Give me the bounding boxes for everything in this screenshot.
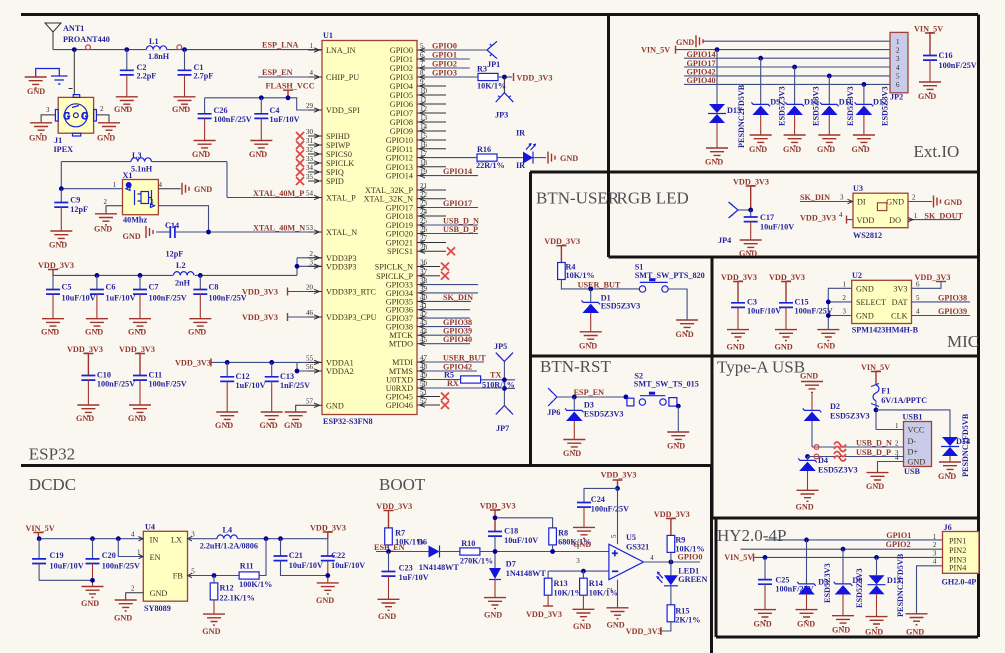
- svg-text:GPIO10: GPIO10: [386, 136, 413, 145]
- svg-text:34: 34: [306, 164, 314, 172]
- power label VDD_3V3 VDDA: [175, 358, 322, 371]
- power label VDD_3V3 pin20: [242, 288, 322, 297]
- svg-text:DO: DO: [889, 216, 901, 225]
- ground under D1: [579, 332, 602, 351]
- ground port X1 pin4: [182, 183, 212, 195]
- svg-text:12pF: 12pF: [70, 205, 88, 214]
- svg-text:3V3: 3V3: [893, 284, 907, 293]
- node D12: [862, 82, 867, 87]
- svg-text:GND: GND: [797, 620, 815, 629]
- svg-text:C13: C13: [280, 372, 294, 381]
- ground under C17: [739, 240, 762, 258]
- resistor R10: [460, 539, 581, 566]
- svg-text:IPEX: IPEX: [54, 145, 74, 154]
- svg-text:GND: GND: [484, 611, 502, 620]
- svg-text:LNA_IN: LNA_IN: [326, 46, 356, 55]
- diode D12: [855, 84, 890, 135]
- svg-text:5: 5: [896, 73, 900, 81]
- capacitor C22: [321, 539, 366, 583]
- svg-text:RX: RX: [447, 379, 459, 388]
- svg-text:GPIO2: GPIO2: [886, 540, 911, 549]
- svg-text:R12: R12: [220, 584, 234, 593]
- svg-text:J6: J6: [944, 523, 952, 532]
- svg-text:31: 31: [306, 137, 314, 145]
- svg-text:ESD5Z3V3: ESD5Z3V3: [818, 466, 858, 475]
- power label VDD_3V3 R3: [514, 73, 553, 83]
- svg-text:GND: GND: [918, 92, 936, 101]
- svg-text:GND: GND: [856, 284, 874, 293]
- ground under C4: [249, 141, 272, 160]
- svg-text:GND: GND: [754, 620, 772, 629]
- svg-text:MTDI: MTDI: [392, 358, 413, 367]
- power label VDD_3V3 R13: [526, 606, 562, 619]
- capacitor C20: [86, 539, 140, 587]
- svg-text:35: 35: [306, 173, 314, 181]
- node TX: [502, 377, 507, 382]
- svg-text:9: 9: [420, 78, 424, 86]
- ground under D12: [852, 135, 875, 154]
- svg-text:C18: C18: [504, 527, 518, 536]
- power flag VIN_5V DCDC: [26, 524, 55, 539]
- svg-text:GND: GND: [866, 482, 884, 491]
- svg-text:USER_BUT: USER_BUT: [578, 280, 621, 289]
- ground top D2: [800, 372, 823, 411]
- svg-text:2: 2: [933, 541, 937, 549]
- svg-text:100nF/25V: 100nF/25V: [591, 505, 629, 514]
- svg-text:GND: GND: [114, 105, 132, 114]
- svg-text:1: 1: [896, 38, 900, 46]
- svg-text:6V/1A/PPTC: 6V/1A/PPTC: [881, 396, 927, 405]
- capacitor C4: [254, 98, 299, 141]
- svg-text:GND: GND: [85, 328, 103, 337]
- svg-text:28: 28: [420, 243, 428, 251]
- svg-text:R16: R16: [477, 145, 491, 154]
- IC U4 SY8089: [131, 523, 192, 614]
- capacitor C15: [779, 298, 833, 330]
- node C6: [95, 273, 100, 278]
- svg-text:GPIO5: GPIO5: [390, 91, 413, 100]
- svg-text:C14: C14: [165, 221, 179, 230]
- ground under C20: [81, 587, 104, 609]
- node R12: [212, 573, 217, 578]
- svg-text:DI: DI: [857, 198, 866, 207]
- svg-text:2: 2: [104, 198, 108, 206]
- svg-text:USER_BUT: USER_BUT: [443, 354, 486, 363]
- svg-text:GND: GND: [817, 342, 835, 351]
- svg-text:C20: C20: [102, 551, 116, 560]
- svg-text:100nF/25V: 100nF/25V: [149, 294, 187, 303]
- node VDDA2: [295, 369, 300, 374]
- jumper JP6: [547, 388, 627, 417]
- ground U2: [817, 330, 839, 351]
- svg-text:MTDO: MTDO: [389, 340, 413, 349]
- svg-text:1uF/10V: 1uF/10V: [270, 115, 300, 124]
- svg-text:F1: F1: [881, 387, 890, 396]
- inductor L1: [146, 37, 170, 61]
- node RX: [502, 386, 507, 391]
- svg-text:42: 42: [420, 310, 428, 318]
- svg-text:2: 2: [100, 105, 104, 113]
- svg-text:GND: GND: [817, 145, 835, 154]
- wire IPEX drop: [69, 50, 75, 96]
- capacitor C2: [120, 50, 156, 97]
- svg-text:GPIO14: GPIO14: [386, 172, 413, 181]
- svg-text:D2: D2: [830, 402, 840, 411]
- svg-text:1nF/25V: 1nF/25V: [280, 381, 310, 390]
- svg-text:R3: R3: [477, 65, 487, 74]
- jumper JP5: [494, 342, 513, 406]
- wire ESP_EN: [258, 68, 322, 77]
- svg-text:CHIP_PU: CHIP_PU: [326, 73, 359, 82]
- svg-text:2: 2: [896, 46, 900, 54]
- svg-text:2: 2: [310, 250, 314, 258]
- capacitor C11: [128, 371, 187, 424]
- wire PIN4 HY: [917, 566, 943, 614]
- ground S2: [667, 432, 689, 451]
- svg-text:C6: C6: [106, 283, 116, 292]
- svg-text:4: 4: [310, 69, 314, 77]
- svg-text:SPIHD: SPIHD: [326, 132, 350, 141]
- svg-text:C15: C15: [795, 298, 809, 307]
- node C18: [493, 515, 498, 520]
- svg-text:1N4148WT: 1N4148WT: [419, 563, 460, 572]
- svg-text:10K/1%: 10K/1%: [675, 545, 704, 554]
- ground under C26: [192, 141, 216, 160]
- capacitor C6: [85, 275, 136, 336]
- svg-text:GND: GND: [188, 328, 206, 337]
- capacitor C12: [215, 362, 266, 430]
- svg-text:12pF: 12pF: [166, 250, 184, 259]
- node C22 bottom: [325, 573, 330, 578]
- svg-text:JP5: JP5: [494, 342, 507, 351]
- svg-text:VDD: VDD: [857, 216, 875, 225]
- svg-text:30: 30: [306, 128, 314, 136]
- node C20: [90, 536, 95, 541]
- svg-text:GPIO40: GPIO40: [443, 335, 472, 344]
- svg-text:GPIO6: GPIO6: [390, 100, 413, 109]
- power label VIN_5V HY: [724, 553, 942, 562]
- no-ERC marker: [86, 45, 91, 50]
- svg-text:VIN_5V: VIN_5V: [724, 553, 753, 562]
- svg-text:SPIWP: SPIWP: [326, 141, 351, 150]
- svg-text:GPIO39: GPIO39: [938, 307, 967, 316]
- node U2 pin3: [826, 313, 831, 318]
- op-amp U5 GS321: [576, 488, 649, 607]
- svg-text:D6: D6: [417, 538, 427, 547]
- svg-text:G: G: [64, 111, 71, 121]
- node F1 out: [874, 408, 879, 413]
- svg-text:12: 12: [420, 105, 428, 113]
- svg-text:49: 49: [420, 372, 428, 380]
- ground op-amp: [607, 608, 629, 630]
- capacitor C23: [382, 552, 429, 600]
- svg-text:R10: R10: [461, 539, 475, 548]
- svg-text:1: 1: [576, 543, 580, 551]
- svg-text:4: 4: [839, 211, 843, 219]
- svg-text:GPIO4: GPIO4: [390, 82, 413, 91]
- capacitor C26: [198, 98, 252, 141]
- svg-text:4: 4: [933, 558, 937, 566]
- power label VDD_3V3 pin46: [242, 313, 322, 322]
- svg-text:C26: C26: [214, 106, 228, 115]
- ground under D9: [749, 135, 772, 154]
- svg-text:SPID: SPID: [326, 177, 344, 186]
- node C2 junction: [124, 47, 129, 52]
- wire USB_D_N: [812, 439, 904, 452]
- svg-text:5: 5: [916, 294, 920, 302]
- svg-text:14: 14: [420, 123, 428, 131]
- wire GPIO38 U2: [912, 293, 971, 302]
- svg-text:GND: GND: [27, 87, 45, 96]
- svg-text:GND: GND: [123, 232, 141, 241]
- svg-text:C19: C19: [50, 551, 64, 560]
- svg-text:21: 21: [420, 182, 428, 190]
- wire minus input: [548, 570, 609, 572]
- capacitor C14 horizontal: [123, 221, 207, 259]
- power label VDD_3V3 R15: [626, 627, 662, 636]
- node EN branch: [116, 536, 121, 541]
- ground U4: [114, 600, 137, 623]
- wire VIN rail: [38, 538, 143, 540]
- jumper JP7: [496, 406, 513, 434]
- svg-text:GND: GND: [676, 38, 694, 47]
- wire XTAL_40M_N: [209, 224, 323, 233]
- jumper JP4: [718, 202, 751, 245]
- svg-text:U1: U1: [323, 31, 333, 40]
- svg-text:VDD_3V3: VDD_3V3: [654, 510, 690, 519]
- svg-text:VDD_3V3: VDD_3V3: [721, 273, 757, 282]
- node C8: [198, 273, 203, 278]
- svg-text:+: +: [612, 549, 618, 560]
- svg-text:51: 51: [420, 389, 428, 397]
- svg-text:22: 22: [420, 191, 428, 199]
- svg-text:1: 1: [310, 42, 314, 50]
- diode D6 1N4148WT: [417, 538, 460, 573]
- wire FB net: [188, 568, 240, 576]
- svg-text:LX: LX: [171, 536, 182, 545]
- svg-text:C11: C11: [149, 371, 163, 380]
- power label VDD_3V3 U3: [800, 211, 853, 224]
- svg-text:ESP_EN: ESP_EN: [574, 388, 605, 397]
- svg-text:100K/1%: 100K/1%: [239, 580, 272, 589]
- svg-text:PROANT440: PROANT440: [63, 35, 110, 44]
- inductor L2: [173, 261, 195, 288]
- resistor R7: [385, 528, 425, 552]
- svg-text:1uF/10V: 1uF/10V: [236, 381, 266, 390]
- wire X1 pin4 to gnd: [158, 188, 180, 190]
- svg-text:GND: GND: [215, 421, 233, 430]
- svg-text:C21: C21: [289, 551, 303, 560]
- resistor R9: [667, 535, 704, 562]
- svg-text:18: 18: [420, 159, 428, 167]
- svg-text:C17: C17: [760, 213, 774, 222]
- wire LX: [188, 531, 218, 539]
- svg-text:ESP_EN: ESP_EN: [262, 68, 293, 77]
- svg-text:TX: TX: [490, 371, 501, 380]
- svg-text:1: 1: [933, 533, 937, 541]
- wire ESP_LNA main: [53, 41, 322, 50]
- svg-text:D+: D+: [908, 448, 919, 457]
- svg-text:GPIO17: GPIO17: [443, 199, 472, 208]
- wire GND pin57: [296, 405, 308, 412]
- svg-text:41: 41: [420, 302, 428, 310]
- ground under R12: [202, 614, 225, 636]
- svg-text:JP3: JP3: [495, 111, 508, 120]
- svg-text:38: 38: [420, 277, 428, 285]
- bracket ground pair top-left: [25, 69, 68, 97]
- diode D8 ESD5Z3V3: [834, 549, 864, 616]
- svg-text:GPIO46: GPIO46: [386, 401, 413, 410]
- svg-text:10K/1%: 10K/1%: [477, 82, 506, 91]
- wire xtal left: [61, 162, 122, 189]
- svg-text:GREEN: GREEN: [678, 575, 707, 584]
- ground under D8: [832, 616, 854, 635]
- svg-text:SPM1423HM4H-B: SPM1423HM4H-B: [852, 326, 919, 335]
- svg-text:23: 23: [420, 200, 428, 208]
- svg-text:JP2: JP2: [890, 92, 903, 101]
- svg-text:GND: GND: [94, 225, 112, 234]
- capacitor C1: [178, 50, 214, 97]
- svg-text:D4: D4: [818, 456, 828, 465]
- LED IR: [516, 129, 546, 171]
- svg-text:32: 32: [306, 146, 314, 154]
- svg-text:6: 6: [896, 81, 900, 89]
- svg-text:C24: C24: [591, 495, 605, 504]
- svg-text:GPIO7: GPIO7: [390, 109, 413, 118]
- U1 left pins: [296, 42, 377, 410]
- ground under D5: [796, 610, 818, 629]
- svg-text:2.2uH/1.2A/0806: 2.2uH/1.2A/0806: [200, 542, 258, 551]
- svg-text:SMT_SW_TS_015: SMT_SW_TS_015: [634, 380, 699, 389]
- diode D14 TVS: [941, 413, 970, 477]
- ground HY pin4: [906, 614, 928, 637]
- svg-text:R13: R13: [554, 579, 568, 588]
- jumper JP1: [487, 41, 500, 69]
- capacitor C24: [577, 488, 629, 527]
- diode D2 ESD5Z3V3: [803, 402, 870, 447]
- resistor R13: [544, 571, 582, 606]
- svg-text:GND: GND: [906, 628, 924, 637]
- svg-text:VDD_3V3: VDD_3V3: [526, 610, 562, 619]
- svg-text:XTAL_32K_P: XTAL_32K_P: [365, 186, 413, 195]
- power flag VDD_3V3 C15: [769, 273, 805, 303]
- node output: [669, 560, 674, 565]
- svg-text:GND: GND: [378, 612, 396, 621]
- node D15: [874, 555, 879, 560]
- svg-text:GND: GND: [41, 328, 59, 337]
- svg-text:4: 4: [916, 308, 920, 316]
- power label VIN_5V ExtIO: [641, 46, 890, 55]
- svg-text:GPIO3: GPIO3: [432, 69, 457, 78]
- wire GPIO2 HY: [741, 540, 943, 549]
- ground under J1 pin2: [97, 123, 120, 143]
- node D9: [758, 56, 763, 61]
- svg-text:GND: GND: [326, 401, 344, 410]
- svg-text:U2: U2: [852, 271, 862, 280]
- svg-text:8: 8: [420, 69, 424, 77]
- svg-text:2K/1%: 2K/1%: [675, 616, 700, 625]
- svg-text:C12: C12: [236, 372, 250, 381]
- svg-text:SK_DIN: SK_DIN: [800, 193, 830, 202]
- ground S1: [676, 320, 699, 339]
- svg-text:GND: GND: [800, 372, 818, 381]
- svg-text:GH2.0-4P: GH2.0-4P: [942, 578, 977, 587]
- svg-text:C3: C3: [747, 298, 757, 307]
- svg-text:Ext.IO: Ext.IO: [914, 142, 960, 161]
- diode D11: [820, 76, 855, 135]
- svg-text:Type-A USB: Type-A USB: [717, 358, 805, 377]
- svg-text:4: 4: [896, 64, 900, 72]
- svg-text:GND: GND: [563, 449, 581, 458]
- svg-text:USB: USB: [904, 467, 920, 476]
- ground under D15: [865, 617, 888, 637]
- node U2 pin2: [826, 300, 831, 305]
- svg-text:L1: L1: [149, 37, 159, 46]
- svg-text:L2: L2: [176, 261, 186, 270]
- svg-text:GND: GND: [908, 458, 926, 467]
- power flag VDD_3V3 R4: [544, 237, 580, 263]
- ground under D4: [796, 490, 819, 511]
- svg-text:GND: GND: [739, 249, 757, 258]
- svg-text:2: 2: [895, 440, 899, 448]
- svg-text:CLK: CLK: [891, 311, 907, 320]
- svg-text:U4: U4: [145, 523, 155, 532]
- ground under R14: [572, 609, 594, 631]
- svg-text:PIN2: PIN2: [949, 546, 966, 555]
- svg-text:SPICLK: SPICLK: [326, 159, 354, 168]
- svg-text:GND: GND: [150, 589, 168, 598]
- svg-text:1: 1: [914, 212, 918, 220]
- wire SK_DIN U3: [800, 193, 853, 204]
- svg-text:ESD5Z3V3: ESD5Z3V3: [812, 86, 821, 126]
- ground port ExtIO pin1: [676, 35, 890, 47]
- power label VDD_3V3 U2: [912, 273, 951, 288]
- wire VDD_SPI net: [205, 98, 322, 110]
- svg-text:1.8nH: 1.8nH: [148, 52, 170, 61]
- svg-text:VIN_5V: VIN_5V: [914, 25, 943, 34]
- svg-text:GPIO38: GPIO38: [938, 293, 967, 302]
- svg-text:GND: GND: [202, 627, 220, 636]
- svg-text:D7: D7: [506, 560, 516, 569]
- net label SK_DOUT: [908, 211, 964, 222]
- power flag VDD_3V3 R7: [376, 502, 412, 528]
- node C24: [615, 486, 620, 491]
- svg-text:100nF/25V: 100nF/25V: [102, 562, 140, 571]
- ground under C9: [49, 231, 72, 250]
- node R11 top: [264, 536, 269, 541]
- svg-text:11: 11: [420, 96, 427, 104]
- svg-text:D-: D-: [908, 437, 917, 446]
- svg-text:GND: GND: [749, 145, 767, 154]
- svg-text:3: 3: [576, 557, 580, 565]
- svg-text:PESDNC2FD5VB: PESDNC2FD5VB: [737, 84, 746, 148]
- svg-text:VDD3P3_RTC: VDD3P3_RTC: [326, 288, 377, 297]
- svg-text:16: 16: [420, 141, 428, 149]
- svg-text:GPIO9: GPIO9: [390, 127, 413, 136]
- svg-text:GND: GND: [260, 421, 278, 430]
- capacitor C17: [744, 210, 795, 240]
- svg-text:R15: R15: [675, 607, 689, 616]
- svg-text:GND: GND: [194, 185, 212, 194]
- svg-text:XTAL_32K_N: XTAL_32K_N: [364, 195, 413, 204]
- svg-text:40: 40: [420, 294, 428, 302]
- ground under C23: [378, 599, 400, 621]
- svg-text:29: 29: [306, 102, 314, 110]
- svg-text:100nF/25V: 100nF/25V: [214, 115, 252, 124]
- svg-text:SK_DIN: SK_DIN: [443, 293, 473, 302]
- svg-text:−: −: [612, 566, 618, 578]
- resistor R15: [661, 605, 700, 631]
